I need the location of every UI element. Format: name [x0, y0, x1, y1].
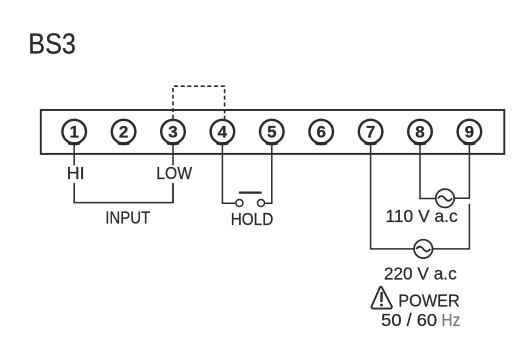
- svg-text:HOLD: HOLD: [231, 209, 274, 229]
- wire terminal 4 to hold switch: [222, 145, 235, 204]
- svg-text:2: 2: [119, 123, 128, 142]
- wire terminal 5 to hold switch: [265, 145, 272, 204]
- terminal 3: [161, 120, 185, 146]
- terminal 8: [408, 120, 432, 146]
- svg-text:Hz: Hz: [441, 310, 460, 330]
- svg-text:1: 1: [69, 123, 78, 142]
- terminal strip outline: [41, 110, 505, 154]
- svg-text:6: 6: [316, 123, 325, 142]
- svg-text:3: 3: [168, 123, 177, 142]
- svg-text:INPUT: INPUT: [105, 208, 150, 228]
- hold switch bar: [239, 192, 262, 194]
- terminal 5: [260, 120, 284, 146]
- svg-text:HI: HI: [67, 163, 85, 183]
- wire HI to INPUT bracket: [73, 183, 75, 203]
- svg-text:LOW: LOW: [156, 163, 192, 183]
- dashed link terminals 3-4: [173, 86, 225, 119]
- svg-text:8: 8: [415, 123, 424, 142]
- svg-text:POWER: POWER: [398, 291, 460, 311]
- ac source 110V: [436, 189, 454, 207]
- hold switch contact left: [236, 200, 243, 207]
- wire LOW to INPUT bracket: [172, 183, 174, 203]
- wire terminal 3 to LOW: [172, 145, 174, 166]
- wire terminal 8 to 110V source: [420, 145, 436, 199]
- svg-text:220 V a.c: 220 V a.c: [384, 264, 457, 284]
- INPUT bracket wire: [74, 184, 173, 203]
- hold switch contact right: [258, 200, 265, 207]
- svg-text:5: 5: [267, 123, 276, 142]
- svg-text:4: 4: [218, 123, 228, 142]
- wire terminal 1 to HI: [73, 145, 75, 166]
- svg-text:9: 9: [465, 123, 474, 142]
- wire terminal 7 to 220V source: [371, 145, 415, 249]
- ac source 220V: [414, 240, 432, 258]
- terminal 7: [359, 120, 383, 146]
- terminal 4: [211, 120, 235, 146]
- terminal 1: [62, 120, 86, 146]
- wire 220V source to terminal 9 branch: [433, 204, 470, 249]
- wire 110V source to terminal 9: [454, 145, 469, 199]
- svg-text:BS3: BS3: [28, 29, 76, 61]
- svg-text:50 / 60: 50 / 60: [381, 310, 437, 330]
- svg-text:7: 7: [366, 123, 375, 142]
- terminal 6: [309, 120, 333, 146]
- warning triangle: [371, 287, 391, 309]
- svg-text:110 V a.c: 110 V a.c: [386, 206, 458, 226]
- terminal 2: [112, 120, 136, 146]
- terminal 9: [458, 120, 482, 146]
